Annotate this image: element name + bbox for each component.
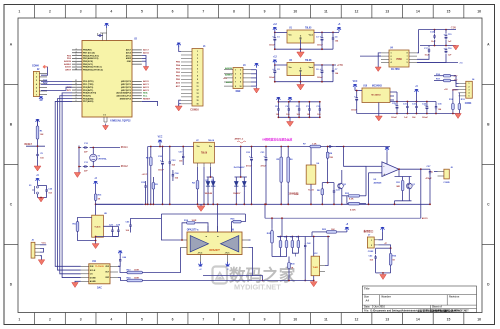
svg-text:PD5(T1): PD5(T1) [83,95,91,97]
svg-text:12: 12 [197,90,199,92]
resistor R24 [126,280,128,282]
ground at U4 [377,66,379,68]
resistor R2 on rail [150,155,152,157]
COM4 TXD RXD wires to MCU [41,81,72,83]
ground U8 [95,237,97,243]
svg-text:PB1(AIN0/OC2): PB1(AIN0/OC2) [83,57,99,60]
capacitor C43 [375,255,377,257]
svg-text:SCL: SCL [143,95,148,97]
svg-text:AMOSI: AMOSI [64,60,71,63]
svg-text:8.2K: 8.2K [349,198,354,200]
svg-text:ADC6: ADC6 [126,51,131,54]
power for cap bank [277,98,279,102]
shunt reference U12 TL431 [311,256,320,276]
svg-text:PD1 (TXD): PD1 (TXD) [83,84,94,86]
svg-text:5: 5 [141,10,143,14]
wire D4 to rail [240,147,242,169]
MCU right pins top group [132,49,142,51]
mid rail [265,217,421,219]
ground S1 [40,197,42,199]
svg-text:DIN: DIN [90,266,94,268]
svg-text:11: 11 [324,10,328,14]
capacitor C4 [332,36,334,38]
svg-text:MC34063: MC34063 [371,94,381,97]
power +5 label on DC-DC output [416,90,418,94]
svg-text:3: 3 [235,74,236,76]
svg-text:470pF: 470pF [426,177,433,180]
svg-text:8: 8 [197,76,198,78]
power rail upper [148,146,194,148]
U7 bottom pins [197,163,199,167]
svg-text:12: 12 [355,318,359,322]
svg-text:TLC5615: TLC5615 [95,266,104,268]
wire op-amp outputs down to lower nets [203,275,253,277]
svg-text:1.5K: 1.5K [312,144,317,146]
ground U12 [313,276,315,281]
svg-text:ATMEGA8_TQFP32: ATMEGA8_TQFP32 [110,120,131,123]
svg-text:1: 1 [197,51,198,53]
wire +12 to U3 input [275,64,287,66]
+5 power to COM16 pin1 [179,46,181,52]
svg-text:6: 6 [407,59,408,61]
svg-text:4: 4 [469,92,470,95]
svg-text:10: 10 [240,86,242,88]
ground DAC [75,281,81,282]
svg-text:4.02K: 4.02K [350,208,356,211]
svg-text:Size: Size [364,296,370,299]
svg-text:7: 7 [235,82,236,84]
U4 output rail to -7.5V [417,30,456,53]
svg-text:3: 3 [75,48,76,50]
ground for cap bank [289,117,291,121]
svg-text:ADC3: ADC3 [143,89,150,92]
svg-text:8: 8 [75,63,76,65]
svg-text:RESET: RESET [143,98,151,100]
resistor R6 [287,155,289,157]
long wire R24 to reference node [144,280,314,282]
capacitor C21 electrolytic [265,156,267,158]
svg-text:AMOSI: AMOSI [225,67,232,70]
svg-text:78L09: 78L09 [201,153,208,155]
svg-text:1: 1 [371,240,372,242]
capacitor C35 [435,104,437,106]
svg-text:ADC1: ADC1 [143,83,150,86]
resistor R4 under U7 [197,167,199,179]
svg-text:PD0 (RTD): PD0 (RTD) [83,81,94,83]
charge pump U4 ICL7660 [389,50,409,67]
svg-text:3 5: 3 5 [103,115,105,117]
svg-text:3: 3 [80,10,82,14]
svg-text:6: 6 [75,100,76,102]
svg-text:-7.5V: -7.5V [451,28,457,30]
svg-text:INT1: INT1 [67,90,71,92]
ground J5 [41,259,43,261]
capacitor C16 [445,48,447,50]
svg-text:100uF: 100uF [317,77,324,79]
svg-text:14: 14 [197,96,199,99]
svg-text:DAC: DAC [97,286,102,289]
ground rail under U1 [275,48,333,50]
U9 output wires [249,247,253,275]
svg-text:2: 2 [391,56,392,58]
svg-text:TL431: TL431 [308,189,315,192]
svg-text:COM5: COM5 [443,182,450,184]
svg-text:2: 2 [36,77,37,79]
svg-text:ASCK: ASCK [65,66,71,69]
net label RESET [37,141,39,153]
components cluster under R9 [321,187,323,189]
svg-text:PD7(AIN1): PD7(AIN1) [83,100,94,103]
svg-text:100uF: 100uF [158,170,165,172]
svg-text:(ADC3)PC3: (ADC3)PC3 [121,89,131,92]
MCU top power pins with decoupling cap [102,33,104,41]
svg-text:COM3: COM3 [465,103,472,105]
svg-text:3: 3 [36,80,37,82]
U9 supply arrows [199,262,201,266]
capacitor C29 [396,104,398,106]
svg-text:TL431: TL431 [313,266,318,269]
svg-text:AGND: AGND [90,280,96,283]
dual-row header J3 [233,68,243,89]
svg-text:14: 14 [416,10,420,14]
capacitor C13 xtal [83,166,85,168]
microcontroller U2 ATMEGA8_TQFP32 [82,41,132,118]
svg-text:3: 3 [80,318,82,322]
svg-text:ADC0: ADC0 [143,80,150,83]
svg-text:3: 3 [391,59,392,61]
svg-text:备用串口: 备用串口 [363,229,374,233]
svg-text:3: 3 [197,58,198,60]
power +5 to reference block [95,182,97,186]
svg-text:10W电阻: 10W电阻 [289,192,299,196]
svg-text:ADC0: ADC0 [422,217,429,220]
4-wire bus from MCU to DAC [55,101,81,266]
svg-text:5: 5 [197,65,198,67]
wires from +7.5 feeding U4 [360,55,381,57]
ground U1 [300,51,302,53]
svg-text:100uF: 100uF [317,45,324,47]
resistor R25 horizontal [325,231,327,233]
svg-text:34R: 34R [396,185,400,188]
power VCC above MCU [106,24,108,28]
ground below MCU [105,124,107,126]
svg-text:100uF: 100uF [422,117,429,119]
mid wire and ground [420,45,456,47]
capacitor C2 [274,68,276,70]
wire C17 C16 to pin row [417,54,429,59]
svg-text:3: 3 [469,89,470,91]
svg-text:Sheet of: Sheet of [432,306,442,309]
op-amp A triangle [190,236,208,253]
svg-text:PD6(AIN0): PD6(AIN0) [83,97,94,100]
svg-text:12: 12 [355,10,359,14]
svg-text:10K: 10K [40,134,44,136]
capacitor C7 [332,68,334,70]
svg-text:A4: A4 [366,299,370,303]
capacitor C37 [182,154,184,156]
watermark logo 数码之家 [213,265,296,292]
U10 output wires [390,91,397,93]
svg-text:9: 9 [75,66,76,68]
header COM5 [444,169,449,179]
wire to ADC net [420,169,422,218]
svg-text:10: 10 [293,10,297,14]
svg-text:8: 8 [206,236,208,237]
svg-text:PB0(ICP/CLKO): PB0(ICP/CLKO) [83,55,99,57]
svg-text:78L09: 78L09 [208,140,215,142]
svg-text:2: 2 [197,55,198,57]
svg-text:ICL7660: ICL7660 [391,69,400,71]
svg-text:(ADC1)PC1: (ADC1)PC1 [121,83,131,86]
capacitor C30 [162,160,164,162]
svg-text:+5V: +5V [444,89,448,91]
capacitor C1 [274,36,276,38]
MCU left pins top group [72,49,82,51]
capacitor C31 [406,104,408,106]
ground U3 [300,84,302,86]
svg-text:AMISO: AMISO [225,74,232,77]
svg-text:8: 8 [233,10,235,14]
svg-text:Title: Title [364,286,370,290]
svg-text:VCC: VCC [158,137,163,139]
svg-text:7: 7 [197,72,198,74]
J5 wires [40,244,46,246]
svg-text:5: 5 [75,97,76,99]
capacitor C33 [169,160,171,162]
diodes D2 D3 1N4007 [235,176,247,178]
svg-text:PB2(SCK): PB2(SCK) [83,61,93,63]
series resistor R7 in rail [309,146,311,148]
svg-text:-: - [383,165,384,169]
DAC output wires to resistors [118,266,126,272]
rail continues to op-amp area [336,146,390,148]
svg-text:+VCC: +VCC [142,174,148,176]
svg-text:ADC6: ADC6 [143,51,150,54]
svg-text:31: 31 [75,80,77,82]
svg-text:+5V: +5V [223,78,227,80]
svg-text:7: 7 [202,318,204,322]
svg-text:CON2: CON2 [368,251,374,253]
COM3 wires [456,76,459,84]
capacitor C34 [426,104,428,106]
svg-text:XTAL1: XTAL1 [121,146,129,149]
svg-text:2: 2 [75,89,76,91]
voltage reference U8 TL431 [92,215,104,237]
svg-text:(ADC0)PC0: (ADC0)PC0 [121,80,131,83]
decoupling capacitor bank C8-C13 [278,101,319,103]
op-amp B triangle [221,236,239,253]
xtal wires to MCU [93,147,120,149]
svg-text:ADC2: ADC2 [143,86,150,89]
svg-text:RXD: RXD [43,83,48,85]
svg-text:CRYSTAL: CRYSTAL [98,157,108,160]
capacitor C24 [172,173,174,175]
svg-text:1: 1 [391,53,392,55]
svg-text:1: 1 [36,73,37,75]
resistor R9 [327,150,329,152]
svg-text:7: 7 [202,10,204,14]
ground for COM16 bottom pins [179,100,181,106]
resistor R12 [452,102,454,104]
svg-text:Vout: Vout [309,33,314,36]
svg-text:16: 16 [477,318,481,322]
dc-dc converter U10 MC34063 [362,88,390,103]
svg-text:5: 5 [36,87,37,89]
resistors R32 R33 right [347,195,349,197]
svg-text:1: 1 [18,318,20,322]
capacitor C20 electrolytic [251,156,253,158]
capacitor C27 470pF [421,168,430,170]
resistor R18 feedback [185,222,187,224]
svg-text:R27: R27 [284,237,287,239]
svg-text:2: 2 [49,10,51,14]
svg-text:13: 13 [197,93,199,95]
svg-text:GND: GND [127,61,132,63]
svg-text:6: 6 [172,10,174,14]
svg-text:OPA2277-a: OPA2277-a [187,229,199,232]
ground xtal [78,170,80,173]
dual op-amp U9 OPA2277 [187,232,242,255]
svg-text:3: 3 [75,91,76,93]
svg-text:7: 7 [36,94,37,96]
svg-text:R29: R29 [296,237,299,239]
svg-text:7660: 7660 [396,57,402,61]
series cap C22 in rail [327,146,329,148]
svg-text:1N4007: 1N4007 [233,192,241,195]
svg-text:1: 1 [235,69,236,71]
power arrow +12 at COM4 [43,65,48,68]
svg-text:Vout: Vout [309,66,314,69]
svg-text:MYDIGIT.NET: MYDIGIT.NET [234,283,281,292]
svg-text:1N4148: 1N4148 [205,192,213,195]
crystal Y1 with load caps [78,146,80,170]
svg-text:8: 8 [233,318,235,322]
pin header J1 COM16 [192,49,203,107]
svg-text:+7.5V: +7.5V [337,65,343,67]
capacitor C36 at U10 input [356,96,358,98]
svg-text:Revision: Revision [449,296,460,299]
svg-text:Number: Number [382,296,391,299]
svg-text:PB5(XTAL2/TOSC2): PB5(XTAL2/TOSC2) [83,69,103,72]
resistor divider cluster [280,237,282,239]
capacitor C6 [321,68,323,70]
svg-text:10uF: 10uF [431,41,436,43]
svg-text:TXD: TXD [43,80,48,82]
svg-text:4: 4 [110,10,112,14]
capacitor C25 and resistor R3 pair [145,184,147,186]
svg-text:10K: 10K [331,229,335,231]
loop wire above U9 [161,213,245,215]
svg-text:SCLK: SCLK [90,270,96,272]
capacitor C44 at DAC VDD [118,263,120,266]
svg-text:File:: File: [364,310,369,313]
svg-text:6: 6 [240,78,241,80]
svg-text:78L05: 78L05 [305,28,312,30]
svg-text:100R: 100R [192,220,197,222]
ground DC-DC rail [457,113,459,115]
MCU bottom ground pins [103,117,105,122]
resistor R15 [95,192,97,194]
capacitor C42 cluster [304,243,306,245]
svg-text:11: 11 [324,318,328,322]
wire cluster to rail [281,218,283,236]
svg-text:16: 16 [197,104,199,106]
capacitors right of U8 [111,228,113,230]
wire +12 to U1 input [275,31,287,33]
svg-text:VCC: VCC [42,243,47,245]
svg-text:D4 1N4007: D4 1N4007 [234,166,246,169]
resistor R14 left of U8 [77,220,79,222]
capacitor C14 [434,34,436,36]
svg-text:4: 4 [216,236,219,237]
title block [362,286,476,313]
svg-text:DGND: DGND [90,277,96,279]
svg-text:Date:: Date: [364,306,370,309]
capacitor C12 xtal [83,147,85,149]
svg-text:PD4(XCK/T0): PD4(XCK/T0) [83,92,96,95]
svg-text:8: 8 [240,82,241,84]
svg-text:PD3(INT1): PD3(INT1) [83,90,93,92]
capacitor C15 [445,34,447,36]
svg-text:6: 6 [36,91,37,93]
capacitor C17 [428,48,430,50]
main lower rail [96,203,431,205]
diodes D5 D6 1N4148 [210,167,212,177]
series device U7 on power rail [194,142,215,163]
svg-text:5: 5 [75,54,76,56]
svg-text:XTAL2: XTAL2 [121,165,129,168]
MCU bottom right pin wire [142,101,158,106]
svg-text:-VCC: -VCC [197,252,202,254]
regulator U3 78L08 [287,63,314,76]
svg-text:32: 32 [75,83,77,85]
svg-text:+: + [383,172,385,176]
series resistors R16 R17 top [442,75,444,77]
resistor R1 reset pullup [37,120,39,124]
svg-text:AD8628: AD8628 [374,181,383,184]
wire U3 output +7.5V [314,64,336,66]
svg-text:AMISO: AMISO [64,63,71,66]
svg-text:78L08: 78L08 [305,60,312,62]
regulator U1 78L05 [287,30,314,43]
DAC U11 TLC5615 [89,264,110,284]
VCC arrow on rail [159,140,161,144]
reset button S1 [37,179,39,183]
svg-text:8: 8 [407,53,408,55]
svg-text:TL431: TL431 [94,226,101,229]
resistor R13 [458,102,460,104]
svg-text:6: 6 [75,57,76,59]
svg-text:15: 15 [197,100,199,102]
ground reset [37,165,39,167]
crystal Y1 [90,147,94,149]
svg-text:100R: 100R [134,278,139,280]
MCU left pins bottom group [72,81,82,83]
svg-text:R28: R28 [290,237,293,239]
svg-text:2-Jun-2010: 2-Jun-2010 [372,306,385,309]
svg-text:(ADC4/SDA)PC4: (ADC4/SDA)PC4 [116,92,132,95]
svg-text:9: 9 [235,86,236,88]
resistor R5 [280,155,282,157]
svg-text:9: 9 [197,79,198,81]
svg-text:RESET: RESET [25,144,33,146]
svg-text:SDA: SDA [143,92,148,95]
svg-text:5: 5 [235,78,236,80]
svg-text:(RESET)PC6: (RESET)PC6 [120,98,131,100]
svg-text:ARST: ARST [65,69,71,72]
ground under U10 [378,103,380,117]
capacitor C32 [416,104,418,106]
